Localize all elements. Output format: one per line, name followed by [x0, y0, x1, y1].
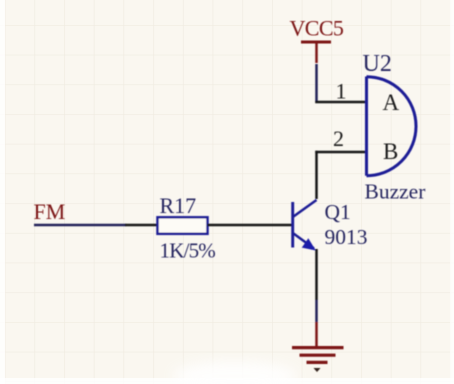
- svg-text:Buzzer: Buzzer: [365, 180, 426, 204]
- svg-text:Q1: Q1: [325, 200, 351, 224]
- svg-text:VCC5: VCC5: [290, 16, 344, 41]
- svg-text:1K/5%: 1K/5%: [160, 239, 216, 263]
- svg-text:A: A: [383, 90, 400, 115]
- svg-text:FM: FM: [34, 199, 66, 224]
- svg-text:2: 2: [333, 126, 344, 151]
- svg-text:B: B: [383, 139, 398, 164]
- svg-text:1: 1: [336, 79, 347, 104]
- svg-text:9013: 9013: [325, 225, 368, 249]
- svg-text:R17: R17: [160, 193, 197, 218]
- svg-text:U2: U2: [363, 51, 392, 77]
